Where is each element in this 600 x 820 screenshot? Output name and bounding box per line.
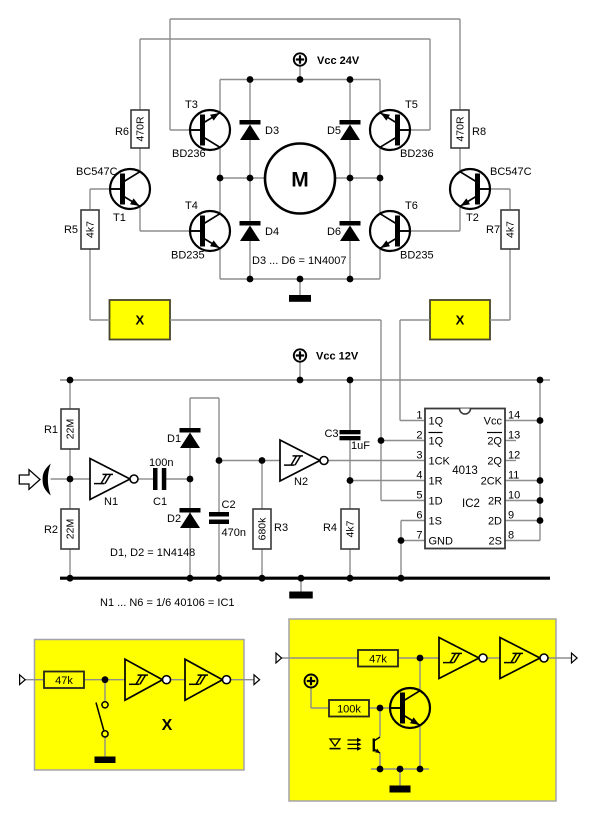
- svg-text:1Q: 1Q: [429, 436, 444, 448]
- svg-text:R1: R1: [44, 424, 58, 436]
- svg-text:470R: 470R: [455, 116, 467, 142]
- svg-text:X: X: [135, 313, 144, 328]
- svg-text:BC547C: BC547C: [76, 166, 118, 178]
- svg-text:IC2: IC2: [462, 498, 480, 510]
- svg-text:4: 4: [416, 470, 422, 482]
- svg-text:9: 9: [508, 510, 514, 522]
- svg-text:1: 1: [416, 410, 422, 422]
- svg-text:T5: T5: [405, 99, 418, 111]
- svg-text:13: 13: [508, 430, 520, 442]
- svg-text:D3 ... D6 = 1N4007: D3 ... D6 = 1N4007: [252, 255, 346, 267]
- svg-text:T1: T1: [113, 212, 126, 224]
- svg-text:D4: D4: [265, 226, 279, 238]
- svg-text:T2: T2: [466, 212, 479, 224]
- svg-text:BC547C: BC547C: [490, 166, 532, 178]
- svg-text:22M: 22M: [65, 519, 77, 539]
- svg-text:1D: 1D: [429, 496, 443, 508]
- svg-text:2D: 2D: [488, 516, 502, 528]
- svg-text:R7: R7: [486, 224, 500, 236]
- svg-text:6: 6: [416, 510, 422, 522]
- svg-text:GND: GND: [429, 536, 454, 548]
- svg-text:R4: R4: [323, 522, 337, 534]
- svg-text:X: X: [162, 717, 173, 734]
- svg-text:BD235: BD235: [171, 250, 205, 262]
- svg-text:T6: T6: [405, 200, 418, 212]
- svg-text:47k: 47k: [369, 654, 387, 666]
- svg-text:1uF: 1uF: [351, 440, 370, 452]
- svg-text:4k7: 4k7: [345, 520, 357, 537]
- svg-text:D3: D3: [265, 125, 279, 137]
- svg-text:2Q: 2Q: [487, 436, 502, 448]
- svg-text:4k7: 4k7: [85, 221, 97, 238]
- svg-text:470R: 470R: [135, 116, 147, 142]
- svg-text:BD236: BD236: [172, 148, 206, 160]
- svg-text:8: 8: [508, 530, 514, 542]
- svg-text:2CK: 2CK: [481, 476, 503, 488]
- svg-text:1Q: 1Q: [429, 416, 444, 428]
- svg-text:3: 3: [416, 450, 422, 462]
- svg-text:1S: 1S: [429, 516, 442, 528]
- svg-text:100n: 100n: [149, 457, 173, 469]
- svg-text:10: 10: [508, 490, 520, 502]
- svg-text:C1: C1: [153, 496, 167, 508]
- svg-text:470n: 470n: [222, 527, 246, 539]
- svg-text:D5: D5: [327, 125, 341, 137]
- svg-text:11: 11: [508, 470, 519, 482]
- svg-text:1R: 1R: [429, 476, 443, 488]
- svg-text:N2: N2: [294, 476, 308, 488]
- svg-text:M: M: [291, 169, 309, 192]
- svg-text:T4: T4: [185, 200, 198, 212]
- svg-text:7: 7: [416, 530, 422, 542]
- svg-text:14: 14: [508, 410, 520, 422]
- svg-text:D6: D6: [327, 226, 341, 238]
- svg-text:R8: R8: [472, 126, 486, 138]
- svg-text:N1: N1: [104, 496, 118, 508]
- svg-text:D1, D2 = 1N4148: D1, D2 = 1N4148: [110, 547, 195, 559]
- svg-text:100k: 100k: [337, 704, 361, 716]
- svg-text:2Q: 2Q: [487, 456, 502, 468]
- svg-text:R5: R5: [64, 224, 78, 236]
- svg-text:C2: C2: [222, 499, 236, 511]
- svg-text:Vcc: Vcc: [484, 416, 503, 428]
- svg-text:Vcc 12V: Vcc 12V: [316, 351, 359, 363]
- svg-text:680k: 680k: [257, 517, 269, 541]
- svg-text:X: X: [456, 313, 465, 328]
- svg-text:C3: C3: [324, 428, 338, 440]
- svg-text:BD235: BD235: [400, 250, 434, 262]
- svg-text:R6: R6: [115, 126, 129, 138]
- svg-text:T3: T3: [185, 99, 198, 111]
- svg-text:12: 12: [508, 450, 520, 462]
- svg-text:N1 ... N6 = 1/6 40106 = IC1: N1 ... N6 = 1/6 40106 = IC1: [100, 597, 235, 609]
- svg-text:R2: R2: [44, 524, 58, 536]
- svg-text:2: 2: [416, 430, 422, 442]
- svg-text:2S: 2S: [489, 536, 502, 548]
- svg-text:2R: 2R: [488, 496, 502, 508]
- svg-text:4013: 4013: [452, 465, 478, 477]
- svg-text:D1: D1: [167, 433, 181, 445]
- svg-text:D2: D2: [167, 513, 181, 525]
- svg-text:Vcc 24V: Vcc 24V: [317, 55, 360, 67]
- svg-text:4k7: 4k7: [505, 221, 517, 238]
- svg-text:1CK: 1CK: [429, 456, 451, 468]
- svg-text:BD236: BD236: [400, 148, 434, 160]
- svg-text:R3: R3: [274, 522, 288, 534]
- svg-text:5: 5: [416, 490, 422, 502]
- svg-text:22M: 22M: [65, 419, 77, 439]
- svg-text:47k: 47k: [55, 675, 73, 687]
